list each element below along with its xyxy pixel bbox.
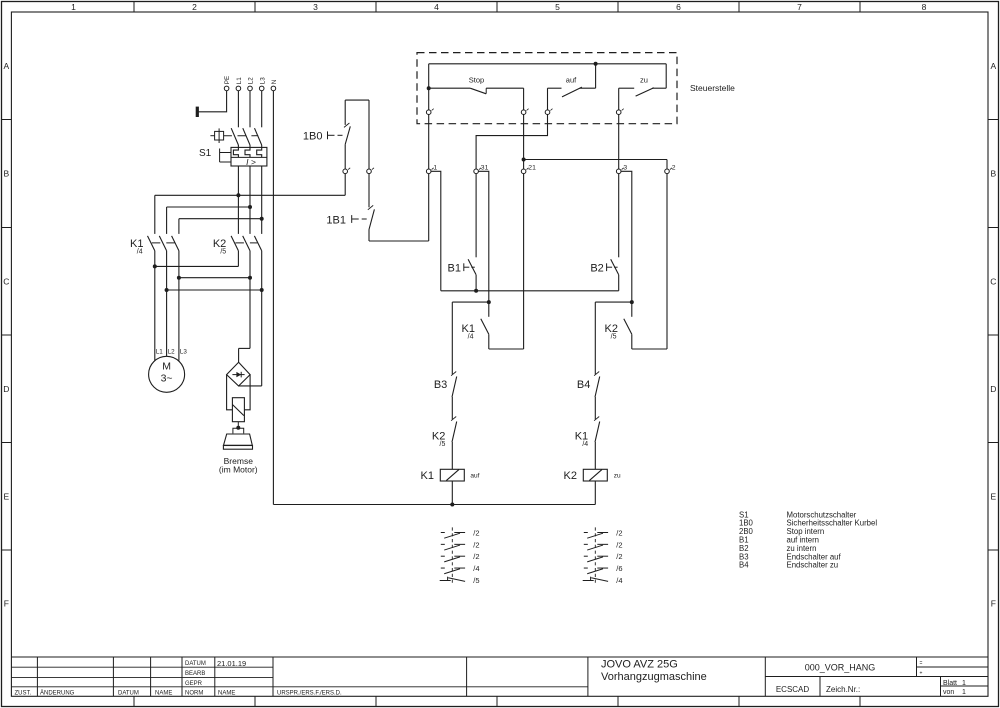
auf button (NO): [548, 62, 598, 110]
svg-text:F: F: [4, 599, 9, 609]
svg-text:Vorhangzugmaschine: Vorhangzugmaschine: [601, 671, 707, 683]
svg-text:6: 6: [676, 2, 681, 12]
S1 switch pole at x=261.7: [255, 128, 262, 148]
svg-text:D: D: [3, 384, 9, 394]
wire rectifier DC+ (left corner) to brake solenoid: [227, 375, 233, 410]
svg-text:auf: auf: [470, 473, 479, 480]
interlock contact K2 /5 (NC): [451, 417, 457, 470]
wire K1.3/K2.2 outputs joined (motor W): [177, 251, 252, 280]
svg-text:(im Motor): (im Motor): [219, 464, 258, 474]
svg-text:=: =: [920, 661, 923, 667]
wire K1 coil to N rail (junction): [450, 481, 454, 507]
svg-text:L2: L2: [248, 77, 255, 85]
svg-text:DATUM: DATUM: [118, 690, 139, 696]
svg-text:3: 3: [313, 2, 318, 12]
contact K2 /5 auxiliary (NO holding): [624, 174, 667, 349]
limit switch B4 (NC, Endschalter zu): [594, 372, 600, 420]
S1 mechanical linkage (dashed): [224, 135, 259, 137]
svg-text:/5: /5: [440, 441, 446, 448]
svg-text:2: 2: [192, 2, 197, 12]
Steuerstelle label: [690, 83, 735, 93]
node: control supply tap on L1 / feeder to K1 pole 1: [155, 193, 241, 234]
wire 1B1 to terminal 1: [369, 174, 429, 241]
wire terminal 1 jog down to rail: [431, 171, 441, 290]
wire feeder L3 to K1 pole 3: [179, 217, 264, 234]
wire terminal 3 jog down to K2 coil node: [621, 171, 632, 302]
svg-text:/4: /4: [582, 441, 588, 448]
svg-text:Zeich.Nr.:: Zeich.Nr.:: [826, 685, 860, 694]
svg-text:DATUM: DATUM: [185, 661, 206, 667]
svg-text:/5: /5: [473, 576, 479, 585]
Stop button (NC): [427, 64, 524, 110]
contact B2 (NO, zu intern): [611, 174, 619, 291]
wire L1 from S1 to K2 pole 1 (junction at control tap): [237, 166, 239, 234]
wire K2.3 output down to rectifier AC2: [239, 290, 262, 386]
svg-text:/2: /2: [473, 540, 479, 549]
contact K1 /4 auxiliary (NO holding): [481, 174, 524, 349]
wire to motor L3: [178, 278, 180, 361]
connector circle below 1B0: [343, 168, 350, 174]
motor terminal labels: [156, 349, 188, 356]
K2 contact cross-reference table: [583, 527, 623, 585]
wire Stop-right to node 21/2: [522, 115, 667, 170]
svg-text:B3: B3: [434, 379, 447, 391]
B2 label and bracket: [590, 262, 617, 274]
svg-text:1: 1: [962, 689, 966, 696]
svg-text:B: B: [990, 169, 996, 179]
svg-text:ÄNDERUNG: ÄNDERUNG: [40, 689, 75, 696]
svg-text:000_VOR_HANG: 000_VOR_HANG: [805, 663, 876, 673]
S1 thermal overload box: [231, 147, 267, 167]
S1 switch pole at x=250.0: [243, 128, 250, 148]
svg-text:/2: /2: [616, 552, 622, 561]
svg-text:1B1: 1B1: [326, 214, 346, 226]
svg-text:7: 7: [797, 2, 802, 12]
interlock contact K1 /4 (NC): [594, 417, 600, 470]
K2 interlock label: [432, 431, 446, 448]
svg-text:A: A: [990, 61, 996, 71]
motor M 3~: [149, 356, 185, 392]
svg-text:D: D: [990, 384, 996, 394]
svg-text:5: 5: [555, 2, 560, 12]
wire L2 from S1 to K2 pole 2: [249, 166, 251, 234]
terminal N: [271, 79, 278, 91]
K2 aux label: [605, 323, 618, 341]
svg-text:M: M: [162, 360, 171, 372]
rail joining 1-31-3 branches: [441, 290, 619, 292]
device legend: [739, 510, 877, 569]
brake (bell) symbol: [223, 434, 252, 449]
wire bracket over 1B0 to 1B1 branch: [345, 99, 369, 101]
brake link junction: [233, 422, 244, 434]
svg-text:/4: /4: [473, 564, 479, 573]
control tap wire from L1 to 1B0: [238, 174, 345, 196]
svg-text:2: 2: [672, 164, 676, 171]
svg-text:8: 8: [922, 2, 927, 12]
svg-text:/5: /5: [611, 333, 617, 340]
contact B1 (NO, auf intern): [468, 174, 478, 293]
svg-text:/4: /4: [137, 248, 143, 255]
contactor K2 main contacts: [231, 236, 262, 251]
svg-text:31: 31: [481, 164, 489, 171]
svg-text:JOVO AVZ 25G: JOVO AVZ 25G: [601, 659, 678, 671]
wire terminal 31 jog down to K1 coil node: [478, 171, 488, 302]
svg-text:zu: zu: [640, 75, 648, 84]
1B1 label and actuator bracket: [326, 214, 366, 226]
svg-text:1: 1: [962, 680, 966, 687]
svg-text:4: 4: [434, 2, 439, 12]
svg-text:F: F: [991, 599, 996, 609]
Bremse label: [219, 456, 258, 475]
wire K1.2/K2.3 outputs joined (motor V): [165, 251, 264, 292]
svg-text:zu: zu: [614, 472, 621, 479]
svg-text:L2: L2: [168, 349, 176, 356]
svg-text:B2: B2: [590, 262, 603, 274]
Steuerstelle dashed enclosure: [417, 53, 677, 124]
terminal PE: [224, 76, 231, 91]
N common rail: [273, 504, 595, 506]
B3 label: [434, 379, 447, 391]
wire to motor L1: [154, 266, 156, 360]
svg-text:/2: /2: [473, 529, 479, 538]
terminal L3: [259, 77, 266, 91]
wire K2.2 output down to rectifier AC1: [239, 278, 250, 363]
wire K1.1/K2.1 outputs joined (motor U): [153, 251, 239, 269]
terminal 2: [665, 164, 676, 173]
svg-text:Steuerstelle: Steuerstelle: [690, 83, 735, 93]
K2 main label: [213, 238, 226, 256]
svg-text:L3: L3: [259, 77, 266, 85]
coil K1 (auf): [440, 469, 464, 481]
wire L1 terminal to S1 switch: [237, 91, 239, 128]
zu value label: [614, 472, 621, 479]
svg-text:/5: /5: [220, 248, 226, 255]
svg-text:NAME: NAME: [218, 690, 235, 696]
svg-text:1: 1: [71, 2, 76, 12]
K1 aux label: [462, 323, 475, 341]
S1 switch pole at x=238.4: [231, 128, 238, 148]
svg-text:3~: 3~: [161, 372, 173, 384]
auf value label: [470, 473, 479, 480]
wire N conductor (terminal N down to control common rail): [272, 91, 274, 505]
svg-text:/2: /2: [473, 552, 479, 561]
terminal 31: [474, 164, 489, 173]
node K1 coil branch: [452, 300, 491, 374]
svg-text:/4: /4: [616, 576, 622, 585]
svg-text:B4: B4: [739, 561, 749, 570]
zu button (NO): [619, 64, 667, 110]
svg-text:21: 21: [528, 164, 536, 171]
svg-text:BEARB: BEARB: [185, 671, 205, 677]
coil K2 (zu): [583, 469, 607, 481]
svg-text:von: von: [943, 689, 954, 696]
Steuerstelle terminal circles: [426, 109, 623, 115]
connector circle on 1B1 branch: [367, 168, 374, 174]
svg-text:K2: K2: [564, 470, 577, 482]
earth terminal bar (PE): [196, 107, 199, 117]
svg-text:C: C: [990, 276, 996, 286]
B4 label: [577, 379, 590, 391]
svg-text:E: E: [3, 491, 9, 501]
svg-text:C: C: [3, 276, 9, 286]
wire zu to terminal 3: [618, 115, 620, 170]
svg-text:/2: /2: [616, 529, 622, 538]
bridge rectifier (diamond with diode): [227, 362, 251, 386]
control station top bus: [429, 63, 667, 65]
svg-text:B: B: [3, 169, 9, 179]
svg-text:NORM: NORM: [185, 690, 203, 696]
K1 interlock label: [575, 431, 589, 448]
svg-text:I >: I >: [246, 157, 256, 167]
safety switch 1B0 (NC, crank): [344, 100, 350, 169]
node K2 coil branch: [595, 300, 634, 374]
svg-text:GEPR: GEPR: [185, 681, 203, 687]
svg-text:B1: B1: [448, 262, 461, 274]
terminal 21: [521, 164, 536, 173]
wire L3 from S1 to K2 pole 3: [261, 166, 263, 234]
svg-text:Blatt: Blatt: [943, 680, 957, 687]
svg-text:3: 3: [623, 164, 627, 171]
K1 main label: [130, 238, 143, 256]
limit switch B3 (NC, Endschalter auf): [451, 372, 457, 420]
wire Stop-left to terminal 1: [428, 115, 430, 170]
safety switch 1B1 (NC): [368, 174, 375, 241]
svg-text:L1: L1: [156, 349, 164, 356]
svg-text:auf: auf: [566, 75, 577, 84]
svg-text:21.01.19: 21.01.19: [217, 659, 246, 668]
svg-text:NAME: NAME: [155, 690, 172, 696]
svg-text:B4: B4: [577, 379, 590, 391]
svg-text:URSPR./ERS.F./ERS.D.: URSPR./ERS.F./ERS.D.: [277, 690, 342, 696]
svg-text:1B0: 1B0: [303, 130, 323, 142]
svg-text:Stop: Stop: [469, 75, 484, 84]
terminal L1: [236, 77, 243, 91]
wire L2 terminal to S1 switch: [249, 91, 251, 128]
svg-text:A: A: [3, 61, 9, 71]
terminal L2: [248, 77, 255, 91]
svg-text:E: E: [990, 491, 996, 501]
svg-text:L1: L1: [236, 77, 243, 85]
K1 contact cross-reference table: [440, 527, 480, 585]
wire rectifier DC- (right corner) to brake solenoid: [244, 375, 250, 410]
svg-text:ECSCAD: ECSCAD: [776, 685, 810, 694]
svg-text:L3: L3: [180, 349, 188, 356]
svg-text:1: 1: [433, 164, 437, 171]
contactor K1 main contacts: [148, 236, 179, 251]
svg-text:S1: S1: [199, 148, 212, 159]
wire to motor L2: [166, 290, 168, 356]
svg-text:/4: /4: [468, 333, 474, 340]
svg-text:/2: /2: [616, 540, 622, 549]
svg-text:K1: K1: [421, 470, 434, 482]
S1 manual actuator symbol: [210, 128, 223, 143]
wire 1B1 branch down: [368, 100, 370, 169]
terminal 1: [426, 164, 437, 173]
svg-text:+: +: [920, 671, 923, 677]
svg-text:Endschalter zu: Endschalter zu: [787, 561, 839, 570]
wire L3 terminal to S1 switch: [261, 91, 263, 128]
K2 coil label: [564, 470, 577, 482]
terminal 3: [616, 164, 627, 173]
wire auf to terminal 31 (jog): [476, 115, 547, 170]
1B0 label and actuator bracket: [303, 130, 343, 142]
svg-text:PE: PE: [224, 76, 231, 84]
title block: [11, 657, 988, 696]
svg-text:/6: /6: [616, 564, 622, 573]
wire K2 coil to N rail: [594, 481, 596, 505]
S1 label: [199, 148, 212, 159]
wire feeder L2 to K1 pole 2: [167, 205, 252, 234]
svg-text:ZUST.: ZUST.: [15, 690, 32, 696]
B1 label and bracket: [448, 262, 475, 274]
S1 left bracket connection: [220, 149, 231, 163]
brake solenoid: [232, 398, 244, 422]
wire PE to earth terminal: [198, 91, 227, 112]
K1 coil label: [421, 470, 434, 482]
svg-text:N: N: [271, 79, 278, 84]
